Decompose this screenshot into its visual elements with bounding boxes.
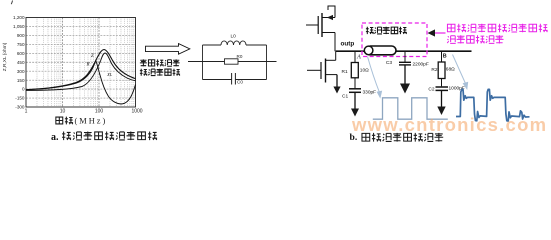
svg-text:1: 1 [25, 109, 28, 115]
svg-text:(MHz): (MHz) [75, 117, 108, 126]
svg-text:1,200: 1,200 [13, 15, 25, 20]
svg-text:L0: L0 [231, 34, 237, 40]
svg-text:2200pF: 2200pF [413, 62, 429, 68]
svg-text:B: B [443, 53, 447, 59]
svg-text:600: 600 [17, 51, 25, 56]
svg-text:C2: C2 [428, 87, 434, 93]
svg-text:1000: 1000 [131, 109, 142, 115]
svg-text:300: 300 [17, 69, 25, 74]
svg-text:XL: XL [106, 72, 113, 77]
svg-text:Z: Z [91, 54, 94, 59]
svg-text:a.: a. [51, 132, 59, 143]
svg-text:www.cntronics.com: www.cntronics.com [351, 114, 547, 135]
svg-text:Z,R,XL (ohm): Z,R,XL (ohm) [2, 42, 8, 71]
svg-text:R0: R0 [237, 54, 243, 59]
svg-text:R: R [86, 63, 90, 68]
svg-text:10Ω: 10Ω [360, 68, 369, 74]
svg-text:A: A [356, 53, 361, 60]
svg-text:outp: outp [341, 41, 355, 48]
svg-text:R1: R1 [342, 69, 348, 75]
svg-text:C0: C0 [237, 80, 243, 85]
svg-text:C3: C3 [386, 60, 392, 66]
svg-text:150: 150 [17, 78, 25, 83]
svg-text:-300: -300 [15, 105, 25, 110]
svg-text:-150: -150 [15, 96, 25, 101]
svg-text:C1: C1 [342, 94, 348, 100]
svg-text:330pF: 330pF [363, 90, 377, 96]
svg-text:10: 10 [60, 109, 66, 115]
svg-text:100: 100 [95, 109, 104, 115]
svg-text:0: 0 [22, 87, 25, 92]
svg-text:750: 750 [17, 42, 25, 47]
svg-text:900: 900 [17, 33, 25, 38]
svg-text:1,050: 1,050 [13, 24, 25, 29]
svg-text:450: 450 [17, 60, 25, 65]
svg-text:68Ω: 68Ω [446, 67, 455, 73]
svg-text:R2: R2 [431, 67, 437, 73]
